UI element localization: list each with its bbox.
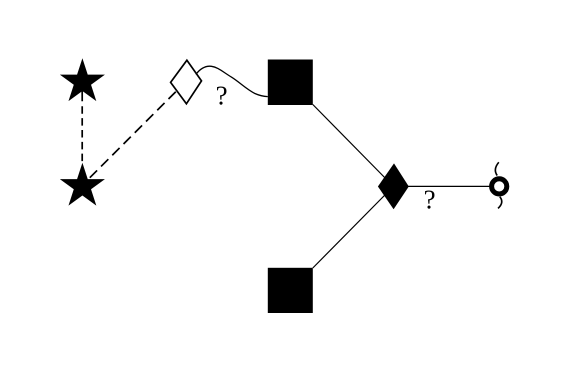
wire top square to filled diamond <box>313 105 394 187</box>
wire dashed diagonal star to open diamond <box>90 91 177 178</box>
wire bottom square to filled diamond <box>313 186 394 268</box>
squiggle arc above circle <box>495 162 498 175</box>
bottom filled square <box>268 268 313 313</box>
wire filled diamond to circle <box>400 185 490 187</box>
wire dashed vertical between stars <box>81 90 83 163</box>
star top <box>60 58 105 101</box>
svg-text:?: ? <box>424 185 436 215</box>
svg-text:?: ? <box>216 81 228 111</box>
open diamond <box>171 60 202 104</box>
filled diamond <box>378 163 409 209</box>
wire curved squiggle diamond to top square <box>196 66 268 96</box>
circle node <box>492 179 507 194</box>
star bottom <box>60 163 105 206</box>
squiggle arc below circle <box>498 197 502 209</box>
top filled square <box>268 60 313 106</box>
